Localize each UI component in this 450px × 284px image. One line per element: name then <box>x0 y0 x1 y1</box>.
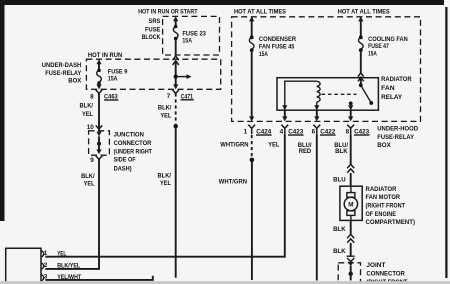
svg-text:BLK: BLK <box>333 226 346 233</box>
joint connector dashed box <box>338 263 360 283</box>
under-dash fuse-relay box (dashed) <box>86 59 220 89</box>
svg-text:HOT IN RUN: HOT IN RUN <box>88 52 123 59</box>
svg-text:UNDER-HOOD: UNDER-HOOD <box>377 126 418 133</box>
wire condenser fuse to pin 1 <box>251 50 253 118</box>
svg-text:OF ENGINE: OF ENGINE <box>366 211 397 218</box>
svg-text:15A: 15A <box>182 37 192 44</box>
svg-text:DASH): DASH) <box>114 166 132 173</box>
wire relay pin4 stub <box>284 110 286 118</box>
svg-text:JOINT: JOINT <box>366 262 385 269</box>
svg-text:M: M <box>348 202 353 209</box>
wire BLU/BLK from pin 8 <box>350 134 352 164</box>
wire BLK from motor <box>350 220 352 234</box>
C471 exit arrow (down) <box>173 84 178 89</box>
pin 1 exit arrow (down) <box>249 116 254 121</box>
svg-text:15A: 15A <box>108 76 118 83</box>
wire BLK/YEL down to bottom <box>175 126 177 278</box>
in-line connector chevrons on BLU wire <box>347 164 354 173</box>
svg-text:9: 9 <box>90 157 94 164</box>
border left bar <box>0 0 5 221</box>
wire WHT/GRN dashed segment <box>251 135 253 158</box>
relay switch output contact <box>349 102 353 106</box>
node junction dot with branch arrow (in under-dash box) <box>174 75 178 79</box>
connector chevrons between SRS block and under-dash box <box>173 56 179 65</box>
label BLU/RED <box>298 142 312 155</box>
svg-text:SRS: SRS <box>149 18 161 25</box>
wire BLK/YEL from junction connector down and left to pin 2 <box>45 159 99 269</box>
fuse F23 element <box>174 25 178 29</box>
svg-text:BLK/: BLK/ <box>80 102 94 109</box>
svg-text:WHT/GRN: WHT/GRN <box>220 141 249 148</box>
wire BLK to joint connector <box>350 243 352 256</box>
svg-text:FAN FUSE 45: FAN FUSE 45 <box>259 44 295 51</box>
connector C463 female <box>96 90 103 94</box>
svg-text:YEL: YEL <box>82 111 93 118</box>
svg-text:(UNDER RIGHT: (UNDER RIGHT <box>114 149 152 156</box>
relay internal wire pin4 riser <box>285 81 317 110</box>
fuse 45 element <box>250 36 254 40</box>
joint connector top terminal <box>347 255 355 257</box>
svg-text:SIDE OF: SIDE OF <box>114 157 136 164</box>
relay switch contact top <box>359 83 363 87</box>
svg-text:FUSE: FUSE <box>145 26 160 33</box>
svg-text:4: 4 <box>280 128 284 135</box>
svg-text:FUSE-RELAY: FUSE-RELAY <box>45 70 82 77</box>
svg-text:BLK: BLK <box>333 248 346 255</box>
svg-text:FUSE 9: FUSE 9 <box>108 69 128 76</box>
svg-text:RELAY: RELAY <box>381 94 403 101</box>
svg-text:CONNECTOR: CONNECTOR <box>114 140 152 147</box>
svg-text:CONNECTOR: CONNECTOR <box>366 271 405 278</box>
node junction dot on WHT/GRN <box>250 158 255 163</box>
svg-text:CONDENSER: CONDENSER <box>259 36 297 43</box>
bottom scan strip <box>0 281 450 284</box>
svg-text:YEL: YEL <box>84 180 95 187</box>
svg-text:8: 8 <box>346 128 350 135</box>
svg-text:YEL: YEL <box>160 113 171 120</box>
svg-text:JUNCTION: JUNCTION <box>114 131 145 138</box>
bottom-left connector box <box>6 248 41 284</box>
svg-text:(RIGHT FRONT: (RIGHT FRONT <box>366 203 406 210</box>
svg-text:BLK/: BLK/ <box>158 105 172 112</box>
junction connector top terminal <box>96 125 103 129</box>
fuse9 exit arrow (down) <box>96 84 101 89</box>
wire cooling fuse top <box>360 20 362 38</box>
svg-text:HOT AT ALL TIMES: HOT AT ALL TIMES <box>234 8 286 15</box>
svg-text:8: 8 <box>90 93 94 100</box>
label BLK/YEL <box>158 105 172 120</box>
condenser fan fuse 45 terminal arrow (up) <box>249 16 254 21</box>
relay actuation dashed link <box>322 93 357 95</box>
connector chevrons at relay entry <box>358 73 364 81</box>
svg-text:BLU: BLU <box>333 177 346 184</box>
wire fuse9 top <box>98 63 100 71</box>
relay pin arrows at box bottom <box>282 105 287 110</box>
svg-text:COMPARTMENT): COMPARTMENT) <box>366 219 416 226</box>
svg-text:YEL: YEL <box>268 141 279 148</box>
in-line connector chevrons on BLK wire <box>347 234 354 243</box>
wire WHT/GRN solid to bottom <box>251 160 253 280</box>
connector C423 female (pin4) <box>281 125 288 135</box>
svg-text:YEL: YEL <box>57 250 66 257</box>
label UNDER-DASH FUSE-RELAY BOX <box>42 62 82 84</box>
svg-text:FAN MOTOR: FAN MOTOR <box>366 194 401 201</box>
fuse F23 terminal arrow (up) <box>173 16 178 21</box>
svg-text:HOT IN RUN OR START: HOT IN RUN OR START <box>138 8 197 15</box>
wire BLK/YEL from C463 <box>98 93 100 131</box>
border right line <box>445 7 447 278</box>
svg-text:COOLING FAN: COOLING FAN <box>368 36 408 43</box>
svg-text:2: 2 <box>44 262 48 269</box>
svg-text:15A: 15A <box>259 51 268 58</box>
label BLK/YEL <box>158 172 172 186</box>
svg-text:FUSE-RELAY: FUSE-RELAY <box>377 134 414 141</box>
svg-text:BLK/YEL: BLK/YEL <box>57 263 80 270</box>
svg-text:BLOCK: BLOCK <box>142 34 161 41</box>
connector C422 female (pin6) <box>313 125 320 135</box>
cooling fan fuse 47 terminal arrow (up) <box>358 16 363 21</box>
pin 1 bracket <box>41 251 43 257</box>
svg-text:RADIATOR: RADIATOR <box>366 186 397 193</box>
label BLU/BLK <box>334 142 348 155</box>
fuse 47 element <box>359 36 363 40</box>
wire node to under-dash box <box>175 62 177 77</box>
radiator fan relay box <box>277 78 378 111</box>
pin 2 bracket <box>41 263 43 269</box>
svg-text:FAN: FAN <box>381 85 395 92</box>
fuse F9 element <box>97 69 101 73</box>
wire fuse23 top <box>175 20 177 27</box>
svg-text:1: 1 <box>44 250 48 257</box>
svg-text:UNDER-DASH: UNDER-DASH <box>42 62 82 69</box>
wire fuse23 to box edge <box>175 39 177 55</box>
wire YEL down and left to pin 1 <box>45 134 284 256</box>
fuse F9 terminal arrow (up) <box>96 59 101 64</box>
svg-text:10: 10 <box>87 124 95 131</box>
svg-text:HOT AT ALL TIMES: HOT AT ALL TIMES <box>338 8 390 15</box>
wire relay pin8 stub <box>350 110 352 118</box>
svg-text:BLK/: BLK/ <box>158 172 172 179</box>
svg-text:BLK/: BLK/ <box>81 173 95 180</box>
wire BLK/YEL dashed from C471 <box>175 93 177 123</box>
relay switch blade <box>361 85 372 103</box>
svg-text:WHT/GRN: WHT/GRN <box>219 179 248 186</box>
node dot inside joint connector <box>349 272 353 276</box>
svg-text:15A: 15A <box>368 51 377 58</box>
junction connector bottom terminal <box>96 149 101 154</box>
label BLK/YEL <box>80 102 94 118</box>
wire to C471 <box>175 77 177 87</box>
svg-text:RADIATOR: RADIATOR <box>381 76 412 83</box>
svg-text:7: 7 <box>167 93 171 100</box>
relay coil to pin6 <box>316 102 318 110</box>
SRS fuse block (dashed box) <box>163 16 220 55</box>
wire fuse9 to box bottom <box>98 83 100 87</box>
under-hood fuse-relay box (dashed) <box>232 17 421 122</box>
label BLK/YEL <box>81 173 95 188</box>
label SRS FUSE BLOCK <box>142 18 161 41</box>
connector C423 female (pin8) <box>347 125 354 135</box>
border top bar <box>0 0 444 5</box>
svg-text:BOX: BOX <box>377 142 391 149</box>
wire BLU to motor <box>350 173 352 186</box>
wire through joint connector <box>350 266 352 280</box>
node junction dot on BLK/YEL <box>174 124 178 128</box>
svg-text:YEL: YEL <box>160 180 171 187</box>
svg-text:BLK: BLK <box>335 148 348 155</box>
svg-text:FUSE 47: FUSE 47 <box>368 43 389 50</box>
connector C424 female <box>248 125 255 135</box>
svg-text:6: 6 <box>312 128 316 135</box>
wire condenser fuse top <box>251 20 253 38</box>
node dot inside junction connector <box>97 142 101 146</box>
wire YEL/WHT pin3 with riser stub <box>45 276 153 280</box>
svg-text:1: 1 <box>244 128 248 135</box>
wire cooling fuse to relay <box>360 50 362 73</box>
connector C471 female <box>172 90 179 94</box>
svg-text:RED: RED <box>299 148 312 155</box>
wire relay pin6 stub <box>316 110 318 118</box>
wire BLU/RED to bottom <box>316 134 318 280</box>
radiator fan motor M1 box <box>340 186 362 220</box>
junction connector dashed box <box>89 131 110 155</box>
pin 3 bracket <box>41 274 43 280</box>
svg-text:BOX: BOX <box>68 78 82 85</box>
relay coil <box>317 81 320 102</box>
